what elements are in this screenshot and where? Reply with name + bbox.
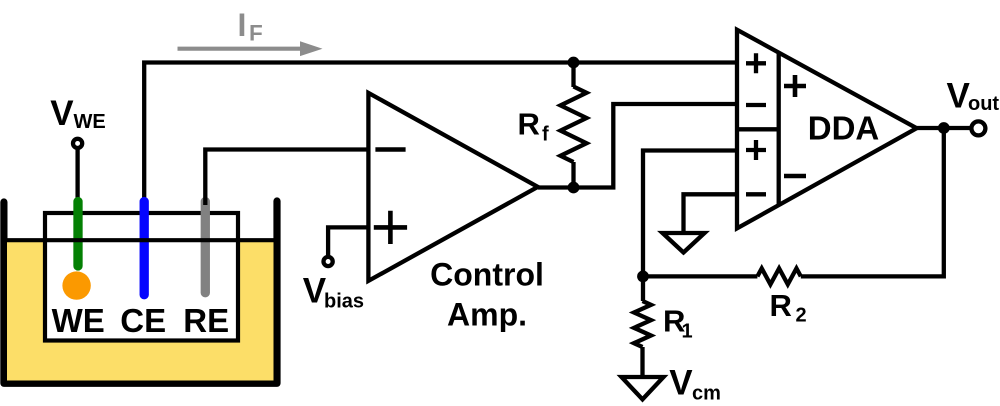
- svg-text:f: f: [542, 124, 549, 146]
- resistor Rf: [571, 63, 575, 188]
- svg-text:V: V: [669, 364, 693, 403]
- svg-text:I: I: [238, 7, 247, 43]
- liquid: [7, 240, 274, 381]
- beaker outline: [4, 201, 277, 383]
- op-amp U2 DDA body: [737, 30, 917, 229]
- svg-text:WE: WE: [74, 111, 106, 133]
- svg-text:2: 2: [796, 305, 807, 327]
- wire CE to top rail to DDA input 1: [144, 63, 737, 206]
- svg-text:DDA: DDA: [808, 110, 880, 147]
- liquid surface line: [7, 238, 274, 242]
- feedback wire output to R2: [801, 128, 944, 276]
- liquid surface line over holder and electrodes: [45, 238, 238, 242]
- electrode CE (blue): [140, 202, 149, 295]
- op-amp U1 control amplifier: [368, 93, 537, 281]
- ground symbol Vcm: [622, 377, 664, 399]
- wire VWE to WE electrode: [75, 143, 79, 210]
- plus sign DDA input 1: [746, 53, 766, 73]
- junction node top rail: [568, 57, 580, 69]
- svg-text:V: V: [50, 94, 74, 133]
- terminal Vbias: [324, 257, 333, 266]
- electrode WE tip (orange ball): [62, 271, 90, 299]
- svg-text:WE: WE: [52, 302, 105, 339]
- svg-text:RE: RE: [183, 302, 229, 339]
- minus sign DDA input 4: [746, 192, 766, 196]
- electrode holder plate: [45, 213, 238, 341]
- svg-text:R: R: [518, 107, 540, 142]
- svg-text:out: out: [968, 93, 999, 115]
- svg-text:cm: cm: [692, 383, 721, 405]
- svg-text:Amp.: Amp.: [447, 296, 527, 332]
- svg-text:R: R: [770, 288, 792, 323]
- minus sign DDA second pair: [784, 174, 806, 179]
- plus sign DDA input 3: [746, 140, 766, 160]
- electrode WE (green): [73, 202, 82, 267]
- wire RE to control amp inverting input: [205, 150, 366, 206]
- plus sign DDA first pair: [784, 75, 806, 97]
- wire DDA input 4 to ground: [684, 194, 738, 233]
- junction node R1 R2: [637, 271, 649, 283]
- terminal VWE: [73, 139, 82, 148]
- electrode RE (gray): [201, 202, 210, 293]
- minus sign U1: [375, 147, 405, 152]
- svg-text:1: 1: [682, 321, 693, 343]
- plus sign U1: [374, 211, 407, 244]
- resistor R2: [757, 268, 800, 284]
- resistor R1: [640, 276, 645, 377]
- wire U1 output to DDA input 2: [574, 104, 738, 188]
- svg-text:Control: Control: [430, 256, 544, 292]
- junction node output: [938, 122, 950, 134]
- ground symbol DDA: [663, 233, 705, 253]
- wire R1 node to DDA input 3: [643, 151, 737, 277]
- DDA input column divider vertical: [777, 53, 781, 205]
- current IF arrow: [178, 47, 303, 51]
- wire Vbias to control amp noninverting input: [328, 227, 366, 256]
- wire U1 output to Rf bottom node: [538, 185, 574, 189]
- svg-text:bias: bias: [324, 291, 364, 313]
- wire R2 to R1 node: [643, 274, 757, 278]
- junction node U1 output: [568, 182, 580, 194]
- wire DDA output to terminal: [917, 126, 972, 130]
- terminal Vout: [971, 121, 985, 135]
- svg-text:F: F: [249, 20, 263, 45]
- minus sign DDA input 2: [746, 103, 766, 107]
- svg-text:CE: CE: [120, 302, 166, 339]
- svg-text:V: V: [947, 76, 971, 115]
- DDA input column divider horizontal: [737, 127, 779, 131]
